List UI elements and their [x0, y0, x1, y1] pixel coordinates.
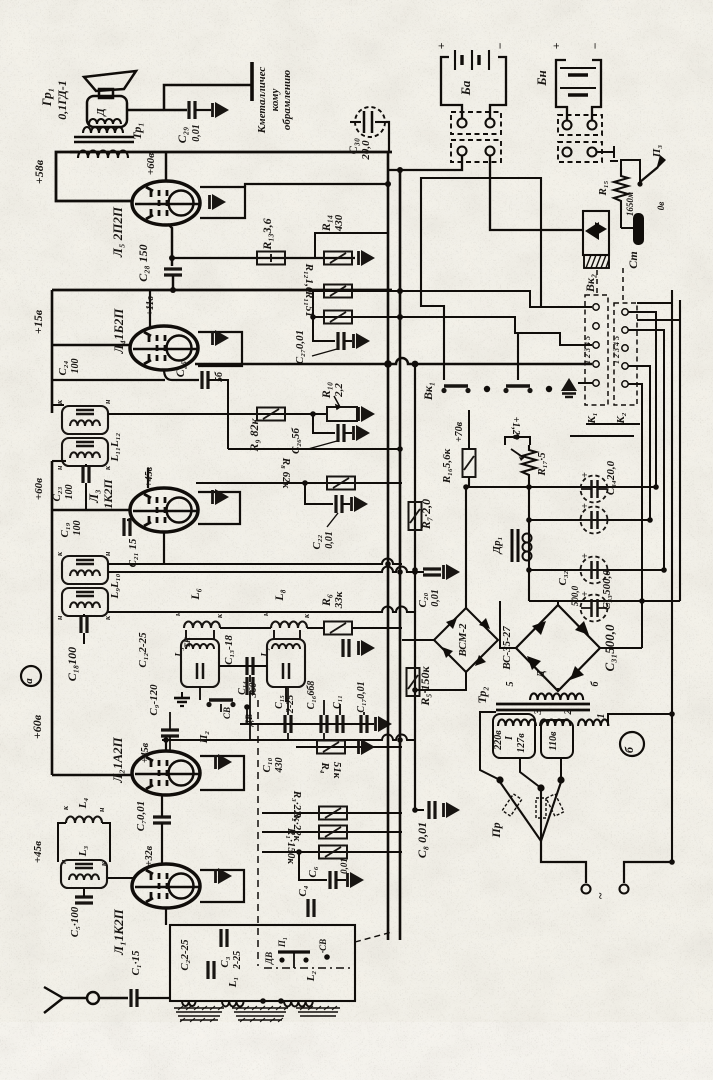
wire bus to tube2 — [52, 774, 132, 776]
resistor R11 — [324, 311, 352, 324]
svg-text:С₂₀: С₂₀ — [417, 592, 429, 607]
wire R1 to C6 — [299, 852, 327, 880]
svg-text:L₇: L₇ — [260, 647, 271, 658]
wire R16 top — [468, 410, 470, 449]
wire VSM2 left — [402, 639, 434, 641]
svg-text:Л₃: Л₃ — [86, 489, 101, 503]
wire tube1 down — [165, 907, 167, 925]
svg-text:R₁₇·5: R₁₇·5 — [536, 452, 548, 477]
wire C30 to bus — [386, 122, 389, 152]
can L5 bottom stub — [199, 687, 201, 700]
svg-text:ДВ: ДВ — [264, 952, 274, 965]
svg-text:1650м: 1650м — [625, 192, 635, 216]
svg-text:5б: 5б — [214, 371, 225, 382]
rectifier VS-35-27 — [516, 605, 600, 691]
choke Dr1 — [512, 529, 518, 562]
circle (b) — [620, 732, 644, 756]
svg-text:Кметалличес: Кметалличес — [256, 67, 268, 135]
wire VS3527 right — [600, 647, 642, 649]
row R2 — [262, 831, 402, 833]
capacitor C18 — [81, 615, 87, 633]
svg-text:L₁₁L₁₂: L₁₁L₁₂ — [109, 432, 121, 462]
svg-text:5: 5 — [505, 682, 516, 687]
svg-text:+60в: +60в — [33, 478, 45, 500]
osc can L7 — [267, 639, 305, 687]
svg-text:Д: Д — [535, 670, 547, 679]
anode box tube3 — [198, 492, 240, 524]
svg-text:R₁₄: R₁₄ — [319, 215, 333, 232]
svg-text:С₁₃-18: С₁₃-18 — [223, 635, 235, 665]
K2 dashed box — [614, 303, 637, 405]
svg-text:С₂₈ 150: С₂₈ 150 — [136, 244, 150, 281]
R17 wiper arrow — [511, 449, 524, 458]
Vk2 arrow 1 — [585, 222, 599, 240]
svg-text:R₇·2,0: R₇·2,0 — [419, 499, 433, 530]
wires Tr2 to fuse — [480, 712, 500, 780]
wire VS3527 top — [557, 601, 559, 605]
svg-text:51к: 51к — [331, 762, 343, 779]
battery Ba cells — [455, 50, 489, 70]
svg-text:R₅·150к: R₅·150к — [418, 665, 432, 706]
wire R15 to St — [620, 210, 622, 228]
anode box wires — [200, 187, 245, 218]
transformer Tr2 secondary — [530, 693, 583, 700]
row R12 wire — [313, 291, 592, 307]
dashes Vk2 to K boxes — [622, 268, 624, 302]
Ba connector block 2 — [451, 140, 501, 162]
svg-text:430: 430 — [333, 214, 345, 232]
svg-text:L₂: L₂ — [305, 971, 317, 983]
ground arrow after C29 — [213, 102, 230, 118]
capacitor C28 — [164, 269, 182, 275]
svg-text:R₈ 62к: R₈ 62к — [280, 457, 292, 489]
ground arrow C20 — [444, 564, 461, 580]
svg-text:1 2 3 4 5: 1 2 3 4 5 — [612, 336, 621, 364]
svg-text:обрамлению: обрамлению — [281, 70, 293, 130]
svg-text:П₁: П₁ — [277, 937, 287, 948]
row R4 — [296, 746, 402, 748]
V line 529 — [528, 487, 530, 601]
resistor R4 — [317, 741, 345, 754]
svg-text:2-25: 2-25 — [232, 951, 243, 970]
svg-text:н: н — [97, 807, 106, 812]
svg-text:R₁₀: R₁₀ — [319, 382, 333, 399]
wire L4 to tube area — [58, 823, 110, 862]
capacitor C1 — [131, 989, 137, 1007]
svg-text:С₁₇0,01: С₁₇0,01 — [356, 681, 367, 712]
junction dot 415 — [412, 361, 419, 368]
svg-text:С₆: С₆ — [307, 866, 319, 877]
wires Bn to block — [556, 100, 567, 120]
wire C6 to arrow — [336, 879, 346, 881]
stubs L6 to can — [185, 630, 187, 640]
svg-text:а: а — [23, 678, 35, 684]
resistor R13 — [257, 252, 285, 265]
ground arrow C22 — [352, 496, 369, 512]
Vk2 arrow 2 — [595, 222, 607, 236]
ground arrow C8 — [444, 802, 461, 818]
svg-text:100: 100 — [72, 521, 83, 536]
wire C26 to arrow — [344, 432, 352, 434]
wire C1 to block — [137, 997, 170, 999]
capacitor C22 — [336, 495, 342, 513]
gnd arrow tube1 — [216, 868, 233, 884]
capacitor C5 — [75, 897, 93, 903]
svg-text:С₁₉: С₁₉ — [59, 522, 71, 537]
switch SV — [206, 700, 235, 707]
K2 contacts — [622, 309, 628, 387]
wires Vk1 up — [421, 178, 541, 380]
stubs L8 to can — [273, 630, 275, 640]
row 612 — [108, 607, 415, 613]
capacitor C32 — [580, 553, 608, 584]
row y717 — [240, 723, 374, 725]
plug pin 1 — [582, 885, 591, 894]
svg-text:0,1ГД-1: 0,1ГД-1 — [55, 80, 69, 120]
fuse dashed bodies — [502, 794, 521, 816]
main vertical bus 2 — [399, 170, 402, 940]
row R1 — [262, 851, 402, 853]
wire C25 right down — [208, 380, 228, 449]
svg-text:+15в: +15в — [31, 309, 45, 334]
power cord right — [624, 862, 672, 883]
capacitor C26 — [338, 424, 344, 442]
transformer Tr2 primary 1 — [498, 719, 536, 726]
tuning block box — [170, 925, 355, 1001]
svg-text:С₇0,01: С₇0,01 — [135, 801, 147, 831]
svg-text:Л₂1А2П: Л₂1А2П — [110, 736, 125, 783]
svg-text:~: ~ — [593, 892, 607, 899]
svg-text:L₉L₁₀: L₉L₁₀ — [109, 573, 121, 599]
svg-text:Л₅ 2П2П: Л₅ 2П2П — [110, 206, 125, 258]
wire from anode box to bus — [245, 184, 388, 187]
svg-text:С₁₁: С₁₁ — [332, 695, 343, 709]
wire K2 top right — [637, 302, 672, 304]
speaker Gr1 body — [87, 96, 127, 127]
pointer line C22 — [327, 513, 338, 527]
H stub under K banks — [570, 424, 640, 436]
svg-text:С₂₉: С₂₉ — [175, 127, 189, 143]
capacitor C21 — [124, 518, 130, 536]
svg-text:н: н — [59, 859, 68, 864]
wire R9 junction to C26 — [313, 414, 335, 433]
svg-text:110в: 110в — [548, 731, 559, 750]
L3 can — [61, 860, 107, 888]
svg-text:Тр₂: Тр₂ — [475, 686, 489, 703]
capacitor C17 — [361, 715, 367, 733]
svg-text:С₁₆6б8: С₁₆6б8 — [306, 681, 317, 710]
left bus mid — [51, 461, 54, 775]
wire up to chassis bar — [164, 85, 252, 110]
wire to tube3 anode — [147, 468, 149, 488]
ground arrow C27 — [354, 333, 371, 349]
svg-text:Др₁: Др₁ — [491, 537, 503, 555]
switch Vk1 contact 2 — [503, 386, 532, 393]
transformer Tr1 winding primary — [83, 127, 123, 133]
svg-text:L₁: L₁ — [227, 977, 239, 989]
svg-text:R₁₃3,6: R₁₃3,6 — [260, 218, 274, 250]
K1 dashed box — [585, 295, 608, 405]
svg-text:С₃₀: С₃₀ — [346, 138, 360, 154]
capacitor C34 — [580, 472, 608, 503]
svg-text:Бн: Бн — [534, 70, 549, 86]
svg-text:220в: 220в — [493, 730, 504, 751]
long right vertical 2 — [679, 300, 681, 601]
svg-text:1 2 3 4 5: 1 2 3 4 5 — [583, 336, 592, 364]
fuse Pr line 1 — [500, 782, 541, 841]
winding box 2 — [541, 720, 573, 758]
svg-text:С₂₂: С₂₂ — [311, 534, 323, 549]
svg-text:С₁·15: С₁·15 — [130, 950, 142, 975]
svg-text:1К2П: 1К2П — [101, 479, 115, 509]
svg-text:2,2: 2,2 — [333, 383, 345, 398]
capacitor C7 — [153, 817, 171, 823]
anode box tube2 — [200, 756, 244, 790]
pointer line C27 — [312, 349, 337, 356]
svg-text:R₁₆5,6к: R₁₆5,6к — [441, 448, 453, 484]
ground stack — [174, 692, 190, 706]
svg-text:П₂: П₂ — [198, 731, 210, 745]
capacitor C11 — [337, 715, 343, 733]
wire R13 junction up — [315, 233, 388, 258]
svg-text:·СВ: ·СВ — [318, 939, 328, 953]
ground tick right of Bn — [597, 146, 618, 161]
svg-text:100: 100 — [70, 359, 81, 374]
wire L6-L8 — [220, 627, 271, 629]
chassis bar to metal frame — [250, 62, 254, 101]
wire Ba pin1 down — [388, 156, 462, 170]
capacitor C20 — [423, 569, 441, 575]
svg-text:С₁₅: С₁₅ — [274, 695, 285, 709]
fuse Pr line 2 — [540, 790, 542, 841]
vertical 415 — [414, 364, 416, 810]
wire C28 down — [172, 276, 174, 290]
resistor R1 — [319, 846, 347, 859]
svg-text:R₁·150к: R₁·150к — [285, 827, 297, 864]
tube L4 — [130, 326, 198, 370]
H line 520 — [529, 519, 650, 521]
svg-text:Ба: Ба — [458, 80, 473, 96]
svg-text:Гр₁: Гр₁ — [39, 88, 54, 108]
wire +11v to tube4 — [149, 290, 151, 328]
coil terminal letters — [55, 399, 311, 866]
row y740 — [162, 735, 415, 741]
wire +60v into tube3 left — [52, 509, 131, 511]
wire VS3527 left — [500, 601, 516, 648]
pointer line C26 — [308, 441, 337, 449]
svg-text:100: 100 — [64, 485, 75, 500]
svg-text:R₆: R₆ — [319, 594, 333, 607]
svg-text:С₃₃500,0: С₃₃500,0 — [601, 570, 613, 610]
svg-text:С₁₀: С₁₀ — [261, 757, 273, 772]
wire y380 to cathode row — [52, 379, 165, 381]
junction dot bus — [384, 360, 392, 368]
capacitor C8 — [429, 801, 435, 819]
row R11 wire — [313, 317, 592, 345]
wire R8 to C22 — [305, 483, 333, 504]
svg-text:СВ: СВ — [222, 707, 232, 719]
svg-text:L₈: L₈ — [272, 589, 286, 602]
svg-text:20,0: 20,0 — [360, 140, 372, 161]
transformer Tr2 primary 3 — [578, 719, 608, 726]
rectifier VSM-2 — [434, 608, 498, 672]
svg-text:С₂₅: С₂₅ — [173, 361, 187, 377]
battery Ba frame — [441, 57, 506, 95]
svg-text:0в: 0в — [656, 202, 666, 211]
cap after R6 — [343, 639, 349, 657]
wire C29 to arrow — [195, 109, 211, 111]
antenna — [44, 987, 128, 1013]
capacitor C16 — [321, 715, 327, 733]
svg-text:С₃: С₃ — [219, 956, 231, 967]
svg-text:С₂₃: С₂₃ — [51, 486, 63, 501]
capacitor C29 — [189, 101, 195, 119]
capacitor C23 — [83, 465, 89, 483]
bus row 364 — [195, 358, 592, 364]
wire C22 to arrow — [342, 503, 350, 505]
svg-text:кому: кому — [269, 89, 281, 112]
row R3 — [262, 812, 402, 814]
svg-text:К₁: К₁ — [586, 412, 598, 424]
svg-text:L₃: L₃ — [77, 846, 89, 858]
transformer Tr2 core — [496, 703, 590, 706]
svg-text:Ст: Ст — [626, 251, 640, 269]
svg-text:+45в: +45в — [144, 466, 155, 487]
wire tube4 cathode to C25 — [164, 369, 199, 380]
svg-text:С₁₂2-25: С₁₂2-25 — [137, 632, 149, 668]
anode box tube4 — [198, 332, 242, 366]
svg-text:3: 3 — [533, 710, 544, 716]
trimmer C13 — [247, 657, 253, 675]
row R9 R10 — [108, 413, 327, 415]
row R8 — [196, 482, 402, 484]
svg-text:+70в: +70в — [454, 421, 465, 442]
resistor R3 — [319, 807, 347, 820]
potentiometer R10 — [327, 407, 357, 421]
power cord left — [541, 841, 586, 883]
H line 601 — [529, 600, 680, 602]
tube L2 — [132, 751, 200, 795]
can L7 bottom stub — [285, 687, 287, 702]
capacitor C6 — [330, 871, 336, 889]
wire R6 right — [352, 627, 402, 629]
IF can T3a — [62, 406, 108, 434]
trimmer C2 — [208, 961, 214, 979]
svg-text:П₃: П₃ — [651, 145, 663, 159]
capacitor C25 — [202, 371, 208, 389]
transformer Tr1 core — [74, 136, 134, 138]
svg-text:Л₄1Б2П: Л₄1Б2П — [111, 308, 126, 355]
svg-text:+45в: +45в — [32, 841, 44, 863]
svg-text:+60в: +60в — [145, 153, 157, 175]
svg-text:0,01: 0,01 — [191, 124, 202, 142]
wire VS3527 bottom — [557, 688, 559, 691]
bus +15v — [52, 289, 392, 292]
svg-text:С₂₇0,01: С₂₇0,01 — [294, 330, 306, 364]
row connecting cans — [219, 665, 267, 667]
K1 contacts — [593, 304, 599, 386]
wire tube5 anode up — [165, 152, 167, 182]
coil L6 — [184, 622, 220, 629]
svg-text:127в: 127в — [516, 733, 527, 753]
resistor R17 zigzag — [522, 445, 536, 487]
dashed cap 2 — [580, 503, 608, 534]
bus +60v top — [70, 151, 392, 154]
svg-text:С₂2-25: С₂2-25 — [179, 939, 191, 971]
junction dot R11 — [397, 314, 403, 320]
Ba connector block 1 — [451, 112, 501, 134]
capacitor C9 — [161, 730, 179, 736]
capacitor C33 — [580, 591, 608, 622]
speaker Gr1 cone — [84, 71, 136, 98]
dashed Vk2 to K1 — [596, 270, 598, 294]
K1 left stubs — [578, 382, 593, 384]
switch Vk1 contact 1 — [441, 386, 470, 393]
trimmer C3 — [221, 929, 227, 947]
svg-text:С₁₄: С₁₄ — [237, 681, 248, 695]
resistor R16 — [463, 449, 476, 477]
wire bus to can1 — [52, 404, 64, 406]
coil L8 — [271, 622, 307, 629]
svg-text:ДВ: ДВ — [244, 714, 254, 727]
wire R12-R11-C27 vertical — [313, 291, 335, 341]
svg-text:R₉ 82к: R₉ 82к — [247, 417, 261, 452]
svg-text:Пр: Пр — [489, 822, 503, 838]
svg-text:Д: Д — [95, 108, 107, 117]
wires Ba to block — [441, 95, 462, 118]
svg-text:С₂₆5б: С₂₆5б — [290, 427, 302, 454]
resistor R15 zigzag — [614, 168, 628, 210]
wire row R13 — [172, 257, 355, 259]
svg-text:С₂₄: С₂₄ — [57, 360, 69, 375]
svg-text:С₈ 0,01: С₈ 0,01 — [415, 822, 429, 858]
plug pin 2 — [620, 885, 629, 894]
capacitor C4 — [308, 899, 314, 917]
wire row740 to tube2 top — [165, 740, 167, 752]
svg-text:500,0: 500,0 — [570, 585, 580, 606]
H line 487 — [469, 486, 656, 488]
ground arrow R14 row — [359, 250, 376, 266]
svg-text:н: н — [261, 611, 270, 616]
svg-text:L₄: L₄ — [77, 798, 89, 810]
battery Bn frame — [556, 60, 601, 100]
tube L1 — [132, 864, 200, 908]
ground arrow C26 — [354, 425, 371, 441]
svg-text:Тр₁: Тр₁ — [130, 122, 144, 139]
wire speaker to C29 — [127, 109, 187, 112]
resistor R12 — [324, 285, 352, 298]
svg-text:R₄: R₄ — [319, 761, 331, 773]
svg-text:−: − — [493, 42, 507, 49]
fuse contact dots — [496, 776, 503, 783]
resistor R9 — [257, 408, 285, 421]
osc can L5 — [181, 639, 219, 687]
left vertical bus upper — [51, 290, 54, 413]
Vk1 dots — [484, 386, 490, 392]
resistor R5 — [407, 668, 420, 696]
svg-text:+: + — [434, 42, 448, 49]
svg-text:0,01: 0,01 — [430, 589, 441, 607]
switch P1 bar — [278, 950, 310, 953]
svg-text:R₁₂1,0: R₁₂1,0 — [303, 263, 315, 293]
coil L1 — [222, 1001, 244, 1007]
dashed band switch line — [257, 700, 259, 966]
svg-text:С₃₂: С₃₂ — [557, 570, 569, 585]
SV dot — [324, 954, 330, 960]
pot bracket R17 — [505, 437, 530, 445]
wire can2 bottom to bus — [52, 460, 66, 462]
resistor R8 — [327, 477, 355, 490]
